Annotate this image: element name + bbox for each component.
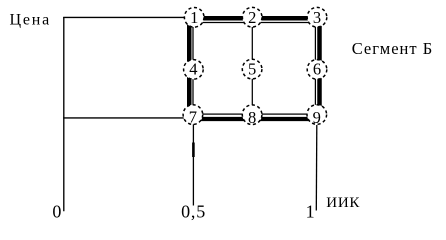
svg-text:8: 8: [248, 108, 256, 127]
thick edge 3-6-9 (right): [317, 16, 322, 121]
tick line below node 9: [315, 125, 318, 211]
thin middle column line 2-5-8: [251, 17, 253, 118]
node 4: [184, 60, 204, 80]
thick edge 1-4-7 (left): [187, 16, 192, 121]
node 1: [184, 7, 204, 27]
node 5: [242, 59, 262, 79]
svg-text:7: 7: [189, 108, 197, 127]
svg-text:1: 1: [190, 8, 198, 27]
axis middle horizontal line to node 7: [63, 117, 193, 119]
svg-text:6: 6: [313, 60, 321, 79]
thick edge 7-8-9 (bottom): [187, 117, 322, 121]
tick line below node 7: [192, 124, 194, 206]
svg-text:3: 3: [313, 8, 321, 27]
node 8: [242, 105, 262, 127]
svg-text:0,5: 0,5: [181, 201, 206, 221]
svg-text:9: 9: [313, 108, 321, 127]
svg-text:5: 5: [248, 60, 256, 79]
axis top horizontal line to node 1: [63, 16, 194, 18]
svg-text:0: 0: [52, 202, 61, 222]
svg-text:ИИК: ИИК: [326, 195, 360, 211]
svg-text:Цена: Цена: [10, 11, 52, 28]
node 9: [307, 105, 327, 128]
svg-text:1: 1: [306, 202, 315, 222]
node 6: [307, 60, 327, 80]
thin inner rectangle: [193, 23, 315, 115]
thick edge 1-2-3 (top): [187, 16, 322, 21]
svg-text:2: 2: [248, 8, 256, 27]
node 7: [183, 105, 203, 127]
y-axis (Цена): [63, 17, 65, 211]
svg-text:4: 4: [189, 60, 197, 79]
node 3: [307, 7, 327, 27]
svg-text:Сегмент Б: Сегмент Б: [352, 39, 434, 58]
node 2: [242, 7, 262, 27]
